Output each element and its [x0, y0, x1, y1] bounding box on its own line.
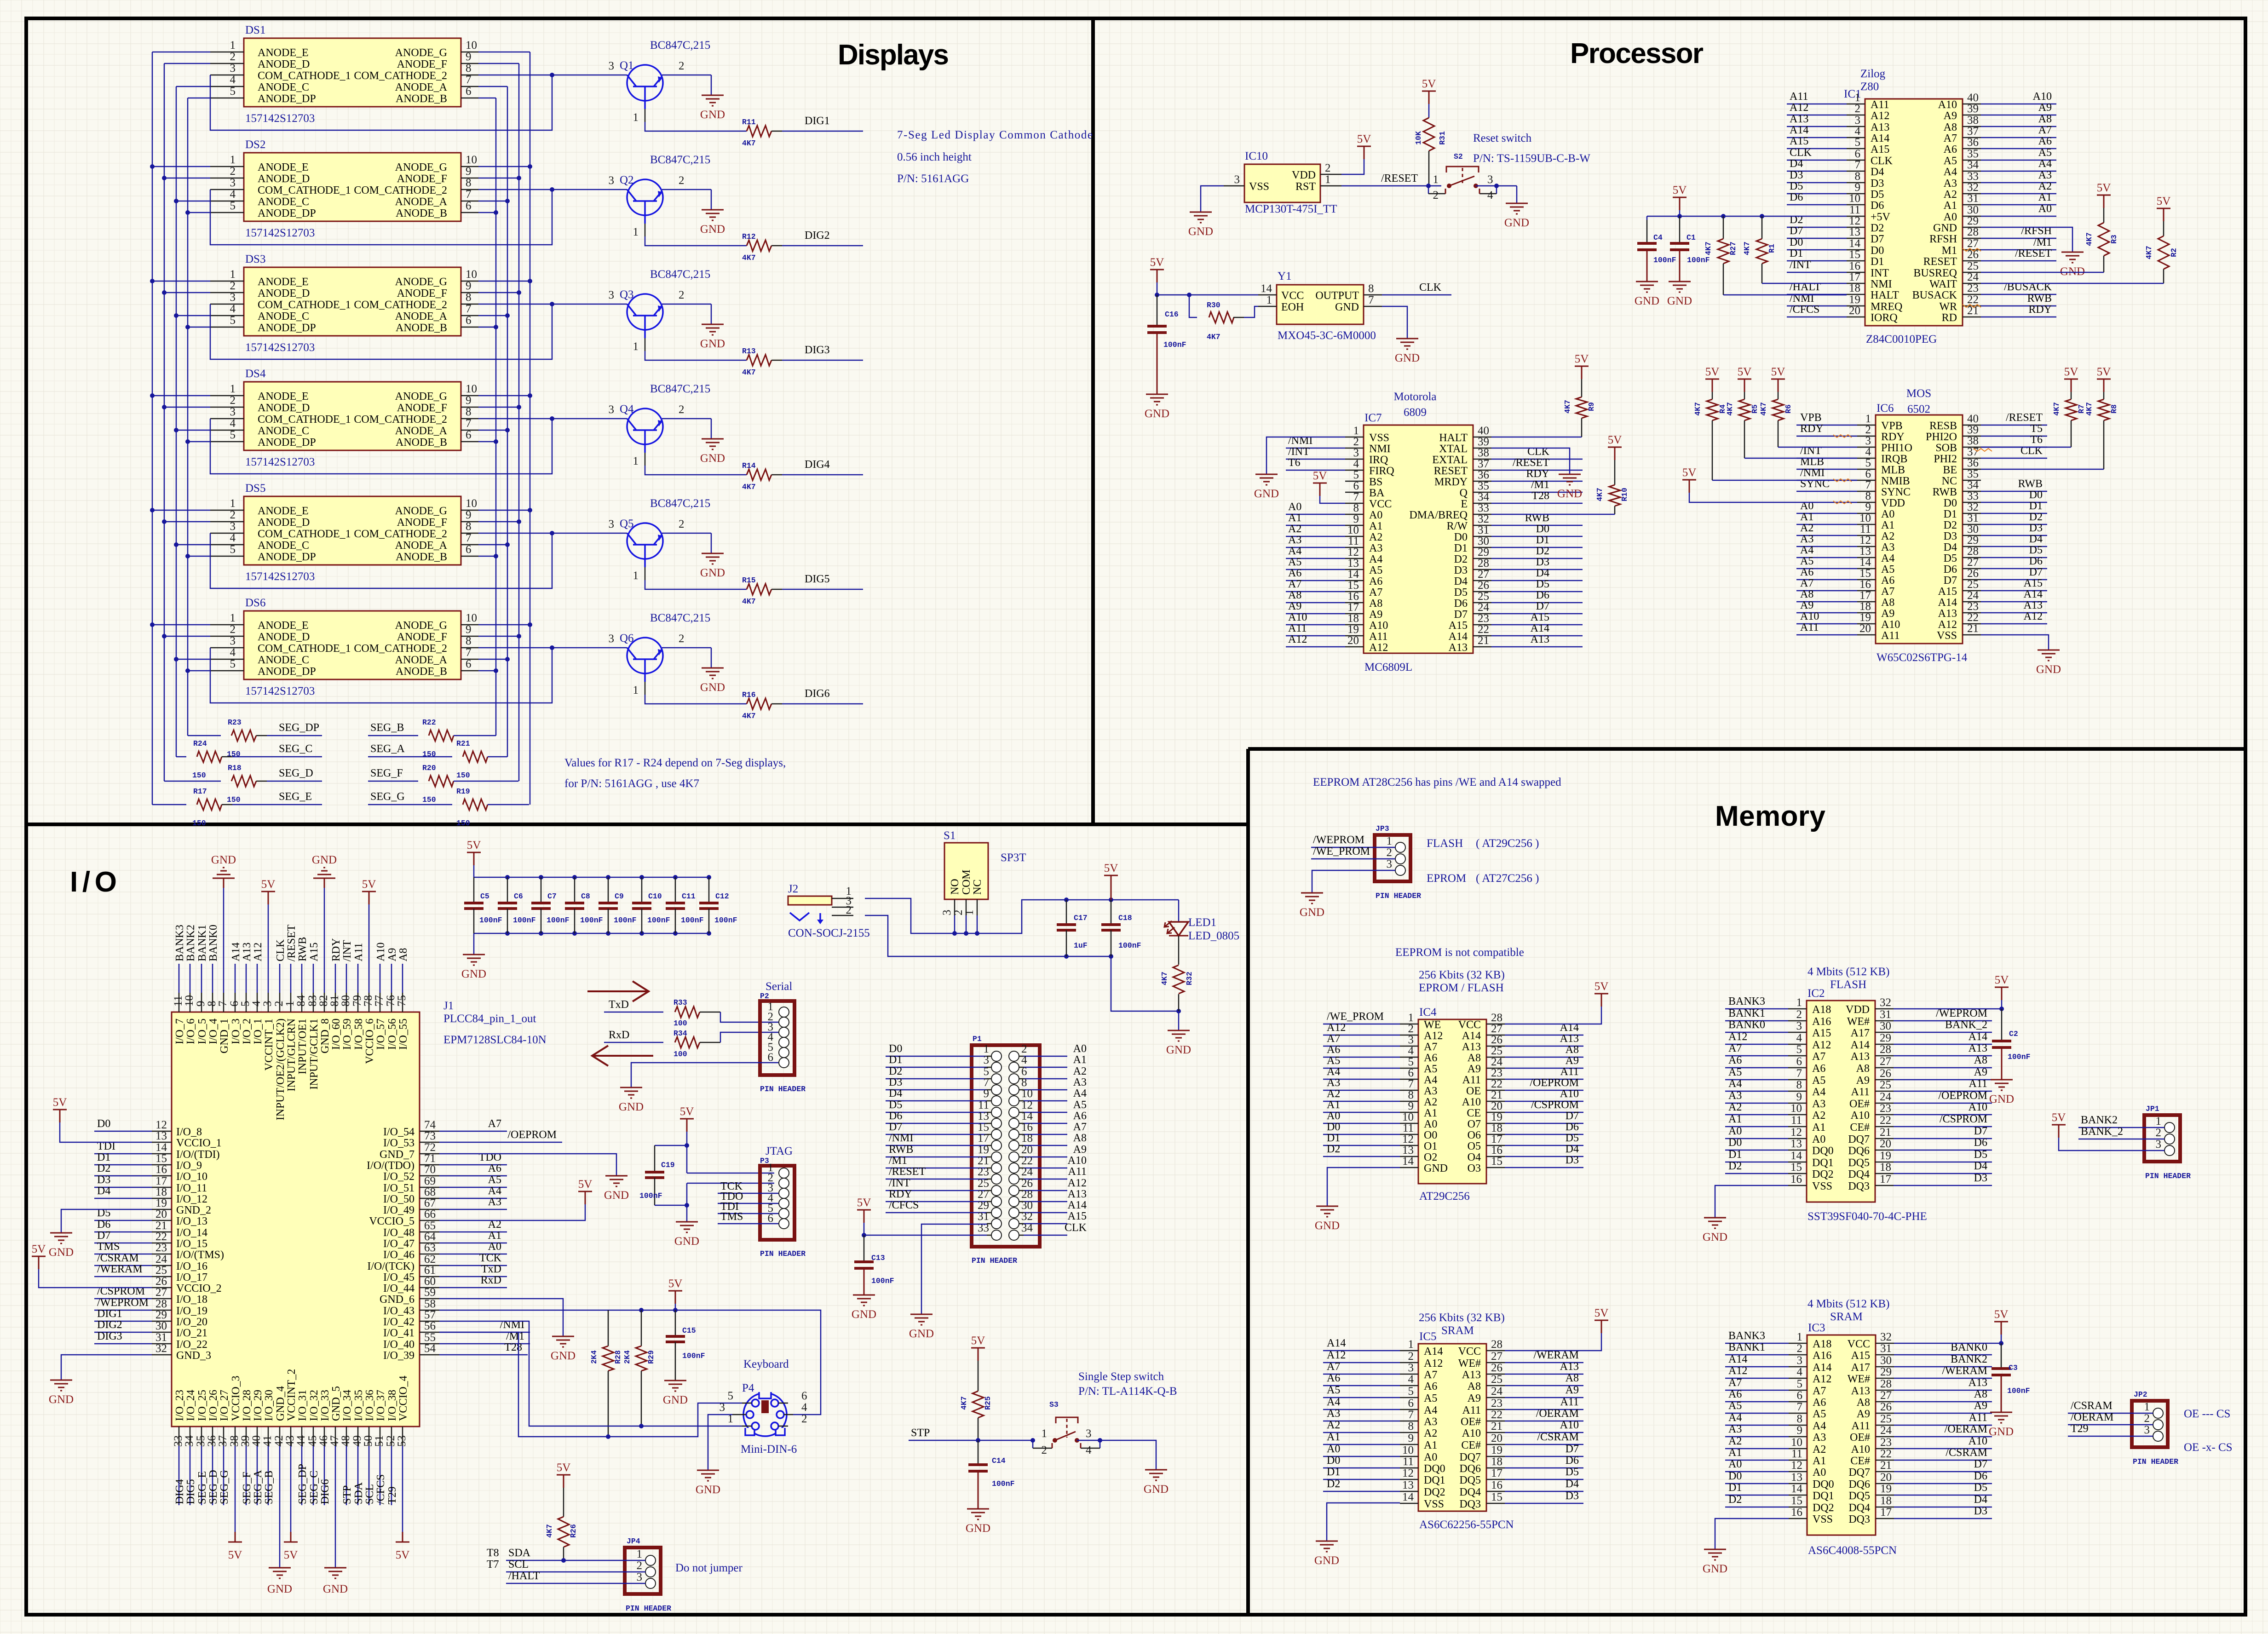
svg-text:GND: GND [1989, 1426, 2014, 1438]
svg-text:IORQ: IORQ [1871, 312, 1898, 324]
svg-text:18: 18 [1021, 1132, 1033, 1145]
pin header JP3 [1375, 824, 1421, 900]
svg-text:COM_CATHODE_2: COM_CATHODE_2 [354, 414, 447, 426]
svg-text:R19: R19 [456, 787, 470, 796]
svg-text:1: 1 [633, 570, 639, 582]
svg-text:4 Mbits (512 KB): 4 Mbits (512 KB) [1807, 1298, 1889, 1310]
pin 27 IC6 right net D6 [1944, 555, 2047, 575]
svg-text:2: 2 [230, 165, 236, 178]
wire node DIG4 [782, 459, 863, 475]
svg-text:12: 12 [1402, 1133, 1414, 1145]
svg-text:100nF: 100nF [580, 916, 603, 925]
svg-text:CLK: CLK [1419, 282, 1442, 293]
svg-text:A3: A3 [1728, 1090, 1742, 1102]
wire COM_CATHODE loop DS5 [210, 531, 627, 588]
svg-text:ANODE_B: ANODE_B [396, 322, 447, 334]
pin 18 IC4 right net D6 [1468, 1121, 1583, 1141]
wire COM_CATHODE loop DS4 [210, 416, 627, 474]
wire GND rail below caps [474, 931, 711, 955]
svg-text:A4: A4 [1424, 1404, 1437, 1416]
svg-text:A13: A13 [1462, 1369, 1481, 1381]
ground GND at C4 [1635, 282, 1659, 307]
svg-text:R13: R13 [742, 347, 756, 356]
svg-text:80: 80 [340, 995, 352, 1007]
svg-text:MREQ: MREQ [1871, 301, 1902, 313]
svg-text:WR: WR [1939, 301, 1957, 313]
wire Z80 pin29 GND [1981, 227, 2072, 252]
svg-text:D7: D7 [1790, 225, 1803, 237]
svg-text:60: 60 [424, 1275, 436, 1288]
wire J1 pin19 GND [61, 1209, 152, 1233]
svg-text:COM_CATHODE_1: COM_CATHODE_1 [258, 643, 351, 655]
svg-text:D1: D1 [889, 1054, 902, 1066]
svg-text:11: 11 [1791, 1114, 1802, 1127]
pin 11 IC4 left net D0 [1323, 1121, 1437, 1141]
svg-text:WAIT: WAIT [1929, 278, 1957, 290]
svg-text:157142S12703: 157142S12703 [245, 341, 315, 354]
svg-text:C5: C5 [480, 892, 489, 901]
pin 65 J1 right net A2 [383, 1220, 439, 1239]
svg-text:C15: C15 [682, 1326, 696, 1335]
svg-text:14: 14 [1347, 568, 1359, 581]
capacitor C6 100nF [498, 877, 536, 933]
svg-text:9: 9 [1353, 513, 1359, 525]
svg-text:I/O_41: I/O_41 [383, 1327, 414, 1339]
svg-text:BANK1: BANK1 [196, 925, 208, 961]
svg-text:/INT: /INT [341, 940, 353, 961]
pin 27 IC3 right net A8 [1857, 1388, 1992, 1409]
svg-text:WE#: WE# [1848, 1373, 1870, 1385]
svg-text:LED_0805: LED_0805 [1188, 930, 1239, 942]
svg-text:R12: R12 [742, 232, 756, 241]
svg-text:C7: C7 [547, 892, 557, 901]
svg-text:GND: GND [1335, 301, 1359, 313]
resistor R6 4K7 pullup [1759, 366, 1857, 447]
svg-text:A6: A6 [1800, 566, 1813, 578]
note resistor values [564, 757, 786, 790]
svg-text:16: 16 [1849, 260, 1860, 272]
svg-text:JP1: JP1 [2146, 1105, 2159, 1113]
svg-text:IC6: IC6 [1877, 402, 1894, 414]
svg-text:A0: A0 [1327, 1110, 1340, 1122]
svg-text:2: 2 [846, 904, 852, 916]
svg-text:R9: R9 [1587, 402, 1596, 411]
svg-text:A12: A12 [1068, 1177, 1087, 1189]
svg-text:DIG2: DIG2 [97, 1319, 122, 1331]
svg-text:32: 32 [1880, 1331, 1892, 1343]
svg-text:7: 7 [466, 532, 472, 544]
svg-text:I/O_1: I/O_1 [252, 1018, 264, 1044]
svg-text:A7: A7 [1424, 1369, 1437, 1381]
svg-text:GND: GND [1424, 1162, 1448, 1174]
pin 1 IC4 left net /WE_PROM [1323, 1011, 1441, 1031]
svg-text:A9: A9 [1288, 600, 1301, 612]
svg-text:R27: R27 [1729, 242, 1738, 255]
pin 2 IC7 left net /NMI [1286, 435, 1391, 455]
svg-text:A8: A8 [1856, 1063, 1870, 1075]
pin 29 J1 left net DIG1 [152, 1309, 207, 1328]
pin 24 IC4 right net A9 [1468, 1055, 1583, 1075]
svg-text:5V: 5V [362, 878, 376, 891]
svg-text:D3: D3 [1974, 1505, 1987, 1517]
ground GND at JTAG [674, 1222, 699, 1248]
svg-text:37: 37 [1967, 125, 1979, 138]
svg-text:19: 19 [1880, 1483, 1892, 1495]
pin 16 J1 left net D2 [152, 1163, 207, 1183]
pin 20 IC6 left net A11 [1796, 621, 1900, 642]
svg-text:GND: GND [700, 452, 725, 465]
wire node TxD J1 [439, 1263, 507, 1277]
pin 24 J1 left net /CSRAM [152, 1253, 207, 1272]
ground GND below J1 [323, 1568, 348, 1595]
power 5V above J1 [261, 878, 276, 904]
svg-text:DQ0: DQ0 [1424, 1463, 1445, 1475]
svg-text:I/O_44: I/O_44 [383, 1283, 414, 1295]
svg-text:A1: A1 [1813, 1455, 1826, 1467]
svg-text:6: 6 [466, 543, 472, 556]
pin 23 P1 left net /RESET [886, 1166, 1002, 1184]
svg-text:I/O_40: I/O_40 [383, 1339, 414, 1351]
svg-text:71: 71 [424, 1152, 436, 1165]
svg-text:20: 20 [1021, 1144, 1033, 1156]
resistor R13 4K7 [742, 347, 782, 377]
svg-text:5V: 5V [1595, 1307, 1609, 1319]
svg-text:RDY: RDY [889, 1188, 912, 1200]
pin 31 IC2 right net /WEPROM [1847, 1007, 1992, 1028]
svg-text:BC847C,215: BC847C,215 [650, 497, 710, 510]
svg-text:12: 12 [1790, 1126, 1802, 1139]
svg-text:I/O_9: I/O_9 [176, 1160, 202, 1172]
svg-text:ANODE_E: ANODE_E [258, 620, 309, 632]
svg-text:A2: A2 [1881, 530, 1894, 542]
svg-text:D0: D0 [1790, 236, 1803, 248]
pin 7 IC6 left net SYNC [1796, 478, 1911, 498]
svg-text:41: 41 [261, 1435, 274, 1447]
svg-text:VCC: VCC [1848, 1338, 1870, 1350]
svg-text:5V: 5V [1313, 470, 1327, 482]
svg-text:16: 16 [1491, 1144, 1502, 1156]
wire node /CSRAM [94, 1252, 152, 1266]
svg-text:12: 12 [1849, 215, 1860, 227]
svg-text:D4: D4 [1944, 541, 1957, 553]
pin 66 J1 right [369, 1208, 439, 1227]
svg-text:D4: D4 [1566, 1478, 1579, 1490]
svg-text:P/N: TL-A114K-Q-B: P/N: TL-A114K-Q-B [1078, 1385, 1177, 1398]
svg-text:ANODE_A: ANODE_A [395, 425, 448, 437]
svg-text:29: 29 [1880, 1366, 1892, 1378]
connector P4 Mini-DIN-6 keyboard [720, 1358, 808, 1456]
svg-text:256 Kbits (32 KB): 256 Kbits (32 KB) [1419, 969, 1505, 981]
svg-text:14: 14 [155, 1141, 167, 1154]
svg-text:34: 34 [183, 1435, 196, 1447]
svg-text:21: 21 [1880, 1126, 1891, 1139]
svg-text:5: 5 [230, 658, 236, 670]
svg-text:1: 1 [1408, 1012, 1414, 1024]
svg-text:ANODE_B: ANODE_B [396, 437, 447, 449]
svg-text:C2: C2 [2009, 1030, 2018, 1038]
svg-text:A10: A10 [1288, 611, 1307, 623]
svg-text:GND: GND [551, 1350, 576, 1362]
ground GND at C14 [966, 1509, 990, 1535]
svg-text:A1: A1 [1288, 512, 1301, 524]
wire IC6 pin21 VSS to GND [1981, 635, 2049, 650]
svg-text:I/O_15: I/O_15 [176, 1238, 207, 1250]
pin 61 J1 right net TxD [383, 1264, 439, 1283]
pin 33 IC6 right net D0 [1944, 489, 2047, 509]
svg-text:A11: A11 [1852, 1420, 1870, 1432]
wire node /WERAM [94, 1263, 152, 1277]
wire node DIG2 [782, 230, 863, 246]
svg-text:A9: A9 [1974, 1400, 1987, 1412]
svg-text:7: 7 [1408, 1078, 1414, 1090]
svg-text:SYNC: SYNC [1881, 486, 1911, 498]
pin 8 IC1 left net D3 [1787, 169, 1884, 190]
svg-text:Reset switch: Reset switch [1473, 132, 1532, 144]
svg-text:GND: GND [461, 968, 486, 980]
svg-text:D2: D2 [2029, 511, 2043, 523]
svg-text:Single Step switch: Single Step switch [1078, 1370, 1164, 1383]
IC IC5 body [1418, 1330, 1514, 1531]
pin 11 IC3 left net A1 [1725, 1447, 1826, 1467]
pin 36 IC1 right net A6 [1944, 135, 2056, 155]
pin 11 J1 top net BANK3 [172, 925, 186, 1044]
svg-text:DQ3: DQ3 [1848, 1513, 1870, 1525]
wire node DIG1 [94, 1308, 152, 1321]
svg-text:I/O_46: I/O_46 [383, 1249, 414, 1261]
svg-text:D2: D2 [1327, 1143, 1340, 1155]
svg-text:A7: A7 [1327, 1361, 1340, 1373]
svg-text:A3: A3 [1813, 1432, 1826, 1444]
svg-text:RESB: RESB [1929, 420, 1957, 432]
svg-text:A10: A10 [375, 943, 387, 961]
svg-text:5V: 5V [467, 839, 481, 852]
svg-text:P1: P1 [973, 1035, 982, 1043]
svg-text:GND: GND [1144, 1483, 1169, 1496]
svg-text:A12: A12 [1728, 1365, 1747, 1377]
svg-text:D5: D5 [2029, 544, 2043, 556]
LED LED1 LED_0805 [1164, 900, 1239, 942]
svg-text:23: 23 [1880, 1102, 1891, 1115]
svg-text:RWB: RWB [297, 937, 309, 961]
svg-text:A10: A10 [1462, 1427, 1481, 1439]
wire IC5 pin14 VSS GND [1327, 1503, 1400, 1541]
svg-text:EEPROM AT28C256 has pins /WE a: EEPROM AT28C256 has pins /WE and A14 swa… [1313, 776, 1561, 788]
pin 30 P1 right net A14 [1009, 1199, 1087, 1218]
svg-text:8: 8 [206, 1001, 218, 1007]
svg-text:I/O_19: I/O_19 [176, 1305, 207, 1317]
wire COM_CATHODE loop DS3 [210, 302, 627, 359]
svg-text:D0: D0 [1454, 531, 1468, 543]
svg-text:A8: A8 [1369, 598, 1382, 610]
svg-text:6: 6 [466, 429, 472, 441]
svg-text:4K7: 4K7 [1726, 402, 1734, 416]
svg-text:56: 56 [424, 1320, 436, 1332]
svg-text:A12: A12 [1424, 1358, 1443, 1369]
svg-text:SEG_C: SEG_C [279, 743, 312, 755]
svg-text:A16: A16 [1813, 1350, 1831, 1362]
wire node A5 J1 [439, 1174, 507, 1187]
svg-text:MOS: MOS [1906, 387, 1931, 400]
wire node STP [909, 1427, 1033, 1443]
svg-text:ANODE_G: ANODE_G [395, 620, 447, 632]
svg-text:A12: A12 [1327, 1349, 1346, 1361]
svg-text:A0: A0 [1728, 1458, 1742, 1470]
pin 2 J1 top net CLK [273, 939, 287, 1120]
pin 17 J1 left net D3 [152, 1175, 207, 1194]
svg-text:D2: D2 [1454, 553, 1468, 565]
svg-text:A13: A13 [1560, 1033, 1579, 1045]
wire 5V to P3 pin1 and C19 [655, 1132, 774, 1173]
pin 78 J1 top [362, 904, 376, 1064]
svg-text:5V: 5V [1150, 256, 1164, 269]
svg-text:2K4: 2K4 [623, 1350, 632, 1364]
svg-text:1: 1 [633, 684, 639, 696]
svg-text:R17: R17 [193, 787, 207, 796]
power 5V below J1 [284, 1532, 298, 1561]
svg-text:ANODE_D: ANODE_D [258, 58, 310, 70]
svg-text:CE#: CE# [1461, 1439, 1481, 1451]
pin 13 P1 left net D6 [886, 1110, 1002, 1128]
switch S2 reset [1428, 152, 1517, 203]
svg-text:RWB: RWB [889, 1144, 913, 1156]
svg-text:ANODE_C: ANODE_C [258, 425, 309, 437]
wire Y1 GND pin7 [1382, 306, 1407, 339]
svg-text:21: 21 [155, 1220, 167, 1232]
svg-text:37: 37 [217, 1435, 229, 1447]
svg-text:IC5: IC5 [1419, 1330, 1437, 1343]
svg-text:4K7: 4K7 [1759, 402, 1768, 416]
svg-text:SEG_B: SEG_B [263, 1471, 275, 1504]
svg-text:HALT: HALT [1439, 432, 1468, 444]
svg-text:I/O_18: I/O_18 [176, 1294, 207, 1306]
pin 38 IC7 right net CLK [1432, 446, 1583, 466]
svg-text:100nF: 100nF [992, 1479, 1015, 1488]
svg-text:157142S12703: 157142S12703 [245, 685, 315, 697]
wire bus SEG_DP left (DS pin5) [185, 98, 210, 736]
svg-text:COM_CATHODE_2: COM_CATHODE_2 [354, 299, 447, 311]
svg-text:VPB: VPB [1800, 412, 1822, 424]
svg-text:A11: A11 [1462, 1404, 1481, 1416]
svg-text:A6: A6 [1369, 575, 1382, 587]
svg-text:ANODE_D: ANODE_D [258, 631, 310, 643]
pin 26 IC1 right net /RESET [1923, 247, 2056, 268]
7-seg display DS6 [210, 597, 478, 697]
svg-text:GND_4: GND_4 [275, 1386, 287, 1421]
svg-text:VSS: VSS [1249, 181, 1269, 193]
wire node DIG2 [94, 1319, 152, 1332]
pin 8 IC7 left net A0 [1286, 501, 1382, 521]
svg-text:24: 24 [1491, 1056, 1503, 1068]
svg-text:D3: D3 [1566, 1490, 1579, 1502]
svg-text:I/O_12: I/O_12 [176, 1193, 207, 1205]
svg-text:46: 46 [317, 1435, 330, 1447]
svg-text:A1: A1 [1073, 1054, 1087, 1066]
svg-text:I/O_27: I/O_27 [219, 1390, 230, 1421]
svg-text:5V: 5V [284, 1549, 298, 1561]
pin 35 IC1 right net A5 [1944, 147, 2056, 167]
svg-text:17: 17 [1859, 589, 1871, 602]
svg-text:18: 18 [1849, 282, 1860, 294]
svg-text:A5: A5 [1728, 1066, 1742, 1078]
pin 69 J1 right net A5 [383, 1175, 439, 1194]
wire J1 pin72 GND_7 [439, 1154, 616, 1176]
svg-text:9: 9 [195, 1001, 207, 1007]
svg-text:/OEPROM: /OEPROM [507, 1129, 557, 1141]
svg-text:/OEPROM: /OEPROM [1938, 1090, 1987, 1102]
svg-text:RESET: RESET [1434, 465, 1468, 477]
svg-text:3: 3 [261, 1001, 274, 1007]
svg-text:GND_3: GND_3 [176, 1350, 211, 1362]
svg-text:O7: O7 [1468, 1118, 1481, 1130]
note 256 Kbits EPROM/FLASH [1419, 969, 1505, 994]
svg-text:A0: A0 [1369, 509, 1382, 521]
svg-text:57: 57 [424, 1309, 436, 1321]
wire node D7 [94, 1230, 152, 1243]
ground GND at P4 [696, 1470, 720, 1496]
resistor R26 4K7 [545, 1488, 578, 1560]
svg-text:13: 13 [1849, 226, 1860, 238]
pin 20 J1 left net D5 [152, 1208, 207, 1227]
pin 18 J1 left net D4 [152, 1186, 207, 1205]
svg-text:ANODE_D: ANODE_D [258, 517, 310, 529]
svg-text:A4: A4 [1728, 1412, 1742, 1424]
svg-text:A8: A8 [1974, 1388, 1987, 1400]
pin 32 IC1 right net A2 [1944, 180, 2056, 201]
svg-text:18: 18 [1880, 1161, 1891, 1174]
svg-text:DIG3: DIG3 [97, 1330, 122, 1342]
svg-text:IC10: IC10 [1245, 150, 1268, 162]
wire node TxD [604, 999, 663, 1012]
svg-text:21: 21 [1880, 1459, 1892, 1472]
capacitor C9 100nF [599, 877, 637, 933]
capacitor C4 100nF [1637, 216, 1676, 282]
svg-text:DS4: DS4 [245, 368, 266, 380]
pin 28 IC4 right [1458, 1012, 1505, 1031]
svg-text:I/O_42: I/O_42 [383, 1316, 414, 1328]
svg-text:R3: R3 [2110, 235, 2118, 244]
svg-text:A7: A7 [1369, 587, 1382, 598]
svg-text:27: 27 [155, 1286, 167, 1299]
oscillator Y1 MXO45 [1258, 270, 1382, 342]
svg-text:24: 24 [1880, 1424, 1892, 1437]
svg-text:3: 3 [230, 291, 236, 304]
svg-text:I/O_45: I/O_45 [383, 1272, 414, 1283]
svg-text:( AT27C256 ): ( AT27C256 ) [1476, 872, 1539, 885]
svg-text:BANK0: BANK0 [1728, 1019, 1765, 1031]
resistor R19 150 (SEG_G) [368, 787, 529, 828]
power 5V above C1 [1673, 184, 1687, 216]
svg-text:9: 9 [1408, 1432, 1414, 1444]
svg-text:100nF: 100nF [1653, 256, 1676, 265]
wire node /CSPROM [94, 1285, 152, 1299]
svg-text:/CSRAM: /CSRAM [1537, 1431, 1579, 1443]
svg-text:22: 22 [1967, 611, 1979, 624]
svg-text:5V: 5V [1705, 366, 1720, 378]
svg-text:100nF: 100nF [871, 1277, 894, 1285]
svg-text:3: 3 [1487, 173, 1493, 186]
svg-text:D4: D4 [889, 1087, 902, 1099]
pin header P1 bus connector [972, 1035, 1040, 1247]
svg-text:VSS: VSS [1424, 1498, 1444, 1510]
svg-text:/NMI: /NMI [1800, 467, 1825, 479]
svg-text:6: 6 [466, 314, 472, 327]
svg-text:C10: C10 [648, 892, 662, 901]
svg-text:A3: A3 [1327, 1408, 1340, 1420]
wire node /CSRAM to JP2 pin1 [2068, 1400, 2153, 1413]
svg-text:GND_2: GND_2 [176, 1204, 211, 1216]
svg-text:4: 4 [1797, 1366, 1803, 1378]
svg-text:A6: A6 [1728, 1054, 1742, 1066]
